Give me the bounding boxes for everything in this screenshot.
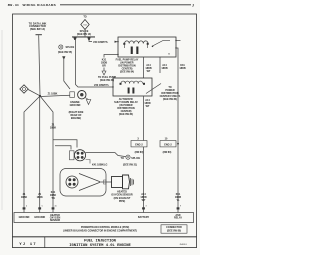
svg-text:K41 18BK/LG: K41 18BK/LG xyxy=(92,164,108,167)
svg-text:WT: WT xyxy=(147,70,151,73)
svg-text:J9408-3: J9408-3 xyxy=(179,244,187,246)
svg-text:GROUND: GROUND xyxy=(34,216,45,219)
svg-text:TN: TN xyxy=(51,197,54,200)
svg-text:SENSOR: SENSOR xyxy=(50,219,61,222)
svg-text:(SEE 8W 21): (SEE 8W 21) xyxy=(123,164,137,167)
svg-text:18DB: 18DB xyxy=(161,67,167,70)
svg-text:PIPE): PIPE) xyxy=(119,200,126,203)
svg-text:GROUND: GROUND xyxy=(19,216,30,219)
svg-text:18BK: 18BK xyxy=(21,196,27,199)
svg-text:(UNDER BULKHEAD CONNECTOR IN E: (UNDER BULKHEAD CONNECTOR IN ENGINE COMP… xyxy=(63,230,137,233)
svg-text:(SEE 8W 84): (SEE 8W 84) xyxy=(119,113,133,116)
svg-text:YL: YL xyxy=(176,199,180,202)
svg-text:4: 4 xyxy=(26,206,27,208)
svg-text:(8W 80): (8W 80) xyxy=(135,151,144,154)
svg-text:YJ 17: YJ 17 xyxy=(19,243,37,247)
svg-text:Z1 18BK: Z1 18BK xyxy=(48,93,58,96)
svg-text:8W - 94: 8W - 94 xyxy=(8,3,19,7)
svg-text:9: 9 xyxy=(180,206,181,208)
svg-text:3: 3 xyxy=(137,137,139,140)
svg-text:(SEE 8W 14): (SEE 8W 14) xyxy=(30,27,45,31)
svg-text:(SEE 8W 55): (SEE 8W 55) xyxy=(58,51,72,54)
svg-text:TO: TO xyxy=(83,16,86,19)
svg-text:IGNITION SYSTEM 4.0L ENGINE: IGNITION SYSTEM 4.0L ENGINE xyxy=(69,244,131,248)
svg-text:ENG-2: ENG-2 xyxy=(135,143,143,146)
svg-text:(8W 80): (8W 80) xyxy=(163,151,172,154)
svg-text:(SEE 8W 84): (SEE 8W 84) xyxy=(120,71,134,74)
svg-text:41: 41 xyxy=(54,206,56,208)
svg-text:BR: BR xyxy=(102,65,106,68)
svg-text:WIRING DIAGRAMS: WIRING DIAGRAMS xyxy=(23,3,57,7)
svg-text:(SEE 8W 30): (SEE 8W 30) xyxy=(100,79,114,82)
svg-text:RELAY: RELAY xyxy=(174,216,182,219)
svg-text:WT: WT xyxy=(142,199,146,202)
svg-text:V30 18WT/TL: V30 18WT/TL xyxy=(93,41,109,44)
svg-text:10: 10 xyxy=(165,137,168,140)
svg-text:18DB: 18DB xyxy=(179,67,185,70)
svg-text:S14: S14 xyxy=(83,25,86,27)
svg-text:GROUND: GROUND xyxy=(70,104,81,107)
svg-text:WT: WT xyxy=(146,105,150,108)
svg-text:(SEE 8W 80): (SEE 8W 80) xyxy=(167,230,181,233)
svg-text:TO: TO xyxy=(121,157,124,160)
svg-text:FUEL INJECTION: FUEL INJECTION xyxy=(84,239,117,243)
svg-text:(SEE 8W 84): (SEE 8W 84) xyxy=(163,98,177,101)
svg-text:BATTERY: BATTERY xyxy=(138,216,150,219)
svg-text:SPLICE: SPLICE xyxy=(66,46,75,49)
svg-text:ENGINE): ENGINE) xyxy=(71,117,81,120)
svg-text:30: 30 xyxy=(168,54,170,56)
svg-text:3: 3 xyxy=(145,206,146,208)
svg-text:SPLICE: SPLICE xyxy=(131,157,140,160)
svg-text:V30 18WT/TL: V30 18WT/TL xyxy=(94,84,110,87)
svg-text:POWERTRAIN CONTROL MODULE (PCM: POWERTRAIN CONTROL MODULE (PCM) xyxy=(81,226,129,229)
svg-text:18BK: 18BK xyxy=(37,196,43,199)
svg-text:J: J xyxy=(192,3,194,7)
svg-text:18BK: 18BK xyxy=(50,127,56,130)
svg-text:ENG-2: ENG-2 xyxy=(164,143,172,146)
svg-text:5: 5 xyxy=(42,206,43,208)
svg-text:(SEE 8W 14): (SEE 8W 14) xyxy=(77,33,91,36)
